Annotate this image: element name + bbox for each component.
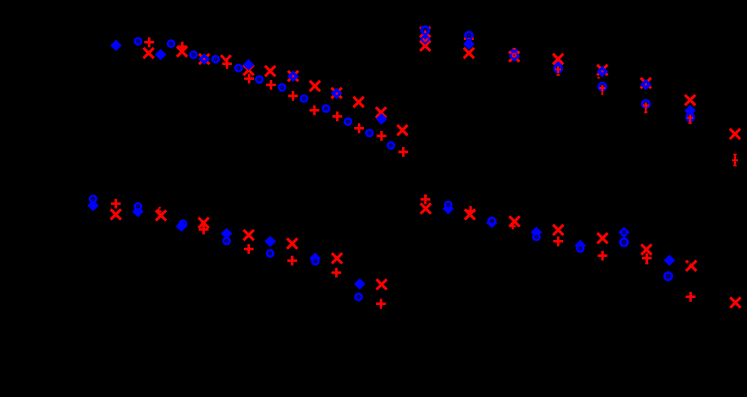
panel1 red plus series <box>144 37 408 156</box>
panel3 blue diamond and circle clusters <box>87 196 365 300</box>
panel2 cluster7 markers <box>684 95 695 123</box>
panel4 blue diamond and circle clusters <box>443 202 676 280</box>
panel2 cluster4 markers <box>552 54 563 75</box>
panel4 red x series <box>421 203 741 307</box>
panel1 red x series <box>143 46 407 135</box>
panel4 red error bars <box>424 196 649 264</box>
panel1 blue open circles series <box>135 38 394 148</box>
panel3 red x series <box>111 209 387 289</box>
panel1 red overlap dots <box>203 58 338 95</box>
panel2 cluster1 markers <box>420 27 431 51</box>
panel3 red error cap <box>159 207 161 209</box>
panel2 cluster6 markers <box>640 78 651 112</box>
panel2 cluster2 markers <box>463 32 474 58</box>
panel1 blue diamond series <box>110 40 387 125</box>
panel4 red plus series <box>421 195 696 302</box>
panel2 cluster8 markers <box>730 129 740 166</box>
panel3 red plus series <box>111 199 386 309</box>
panel2 cluster5 markers <box>597 65 608 95</box>
panel2 cluster3 markers <box>509 49 520 62</box>
